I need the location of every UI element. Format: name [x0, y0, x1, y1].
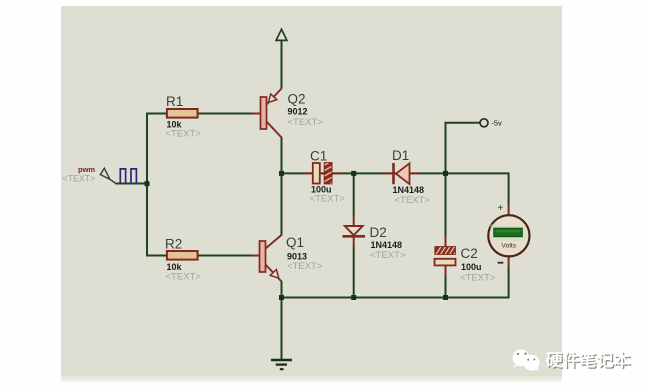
wire C2 branch top — [445, 172, 447, 237]
wire pwm to bus — [116, 183, 149, 185]
wire C2 branch bottom — [445, 276, 447, 299]
svg-text:<TEXT>: <TEXT> — [310, 193, 346, 204]
svg-text:<TEXT>: <TEXT> — [288, 117, 324, 128]
transistor Q2 — [251, 89, 323, 138]
wire voltmeter top — [508, 172, 510, 206]
svg-text:9013: 9013 — [287, 251, 307, 261]
svg-text:D1: D1 — [392, 148, 409, 163]
wire D2 branch bottom — [353, 247, 355, 299]
svg-text:<TEXT>: <TEXT> — [395, 195, 431, 206]
svg-text:-5v: -5v — [492, 119, 502, 128]
svg-text:R2: R2 — [165, 236, 182, 251]
power arrow (top supply) — [276, 29, 287, 40]
node D2 bottom junction — [351, 295, 356, 300]
svg-text:1N4148: 1N4148 — [393, 185, 425, 195]
wire bottom horizontal rail — [282, 297, 509, 299]
svg-text:1N4148: 1N4148 — [371, 240, 403, 250]
ground — [271, 360, 292, 369]
generator pwm — [63, 165, 137, 184]
schematic beige panel — [61, 6, 562, 376]
node emitter/ground junction — [279, 295, 284, 300]
resistor R1 — [166, 94, 202, 140]
node pwm junction — [145, 181, 150, 186]
terminal -5v — [480, 119, 502, 128]
wire collector bus vertical — [281, 137, 283, 236]
svg-text:Q1: Q1 — [286, 235, 304, 250]
svg-text:<TEXT>: <TEXT> — [460, 273, 496, 284]
node C2 bottom junction — [443, 295, 448, 300]
svg-text:<TEXT>: <TEXT> — [63, 174, 96, 184]
svg-text:C2: C2 — [461, 246, 478, 261]
svg-text:<TEXT>: <TEXT> — [166, 129, 202, 140]
wire Q2 emitter to power arrow — [281, 40, 283, 89]
svg-text:Volts: Volts — [501, 242, 516, 249]
watermark text 硬件笔记本 — [546, 352, 631, 369]
svg-text:<TEXT>: <TEXT> — [370, 250, 406, 261]
svg-text:D2: D2 — [370, 225, 387, 240]
svg-text:<TEXT>: <TEXT> — [287, 261, 323, 272]
diode D2 — [343, 215, 406, 261]
resistor R2 — [165, 236, 201, 282]
wire top horizontal rail — [282, 172, 509, 174]
node D2 top junction — [351, 171, 356, 176]
diode D1 — [382, 148, 430, 206]
transistor Q1 — [251, 235, 323, 282]
svg-text:10k: 10k — [167, 262, 183, 272]
node C2/-5v junction — [443, 171, 448, 176]
svg-text:C1: C1 — [310, 149, 327, 164]
svg-text:<TEXT>: <TEXT> — [166, 271, 202, 282]
wire Q1 emitter down — [281, 281, 283, 299]
wire D2 branch top — [353, 172, 355, 215]
capacitor C2 — [435, 237, 496, 284]
wire ground drop — [281, 298, 283, 360]
wire R1 row — [146, 113, 252, 115]
svg-text:9012: 9012 — [288, 106, 308, 116]
watermark icon — [513, 349, 540, 371]
wire R2 row — [146, 255, 252, 257]
wire left vertical (R1 to R2 bus) — [146, 114, 148, 256]
svg-text:Q2: Q2 — [288, 91, 306, 106]
voltmeter U1 — [488, 203, 529, 266]
svg-text:+: + — [497, 203, 503, 214]
wire voltmeter bottom — [508, 266, 510, 299]
svg-text:R1: R1 — [166, 94, 183, 109]
svg-text:100u: 100u — [461, 262, 482, 272]
capacitor C1 — [303, 149, 345, 205]
node collector junction — [279, 171, 284, 176]
wire -5v branch — [446, 123, 481, 175]
